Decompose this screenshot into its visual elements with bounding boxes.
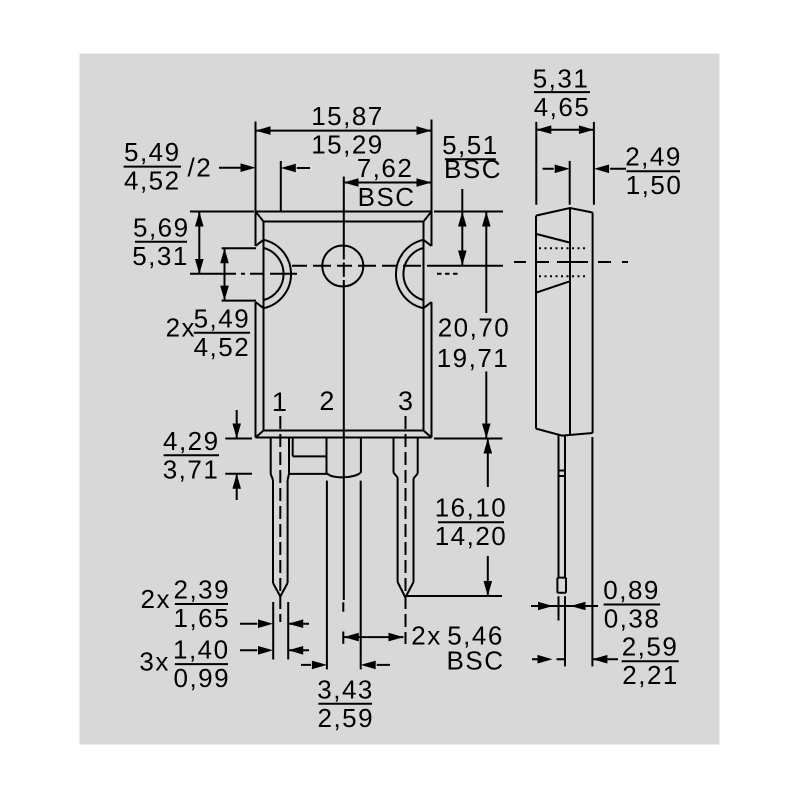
side view hidden dotted line lower xyxy=(539,275,588,277)
arrow 16,10 down xyxy=(484,581,493,596)
side view chamfer edge line xyxy=(569,208,571,435)
side view upper diagonal xyxy=(536,234,569,242)
bar 1,40/0,99 xyxy=(175,663,228,665)
bar 2x5,49/4,52 xyxy=(194,332,250,334)
svg-text:/2: /2 xyxy=(188,153,213,183)
side view pin left edge xyxy=(558,435,560,621)
dim leader 5,51 xyxy=(461,189,463,266)
extension line side 5,31 left xyxy=(535,122,537,205)
side view body outline xyxy=(536,208,593,436)
arrow 2x5,46 left xyxy=(344,633,359,642)
left notch centerline xyxy=(190,273,297,275)
arrow 0,89 left xyxy=(538,602,553,611)
dim line 2,59 xyxy=(532,658,618,660)
arrow 7,62 right xyxy=(417,178,432,187)
pin 3 tip xyxy=(398,582,414,598)
svg-text:BSC: BSC xyxy=(444,154,502,184)
arrow 7,62 left xyxy=(344,178,359,187)
side view hidden dotted line upper xyxy=(539,247,588,249)
arrow 4,29 down to body bottom xyxy=(232,424,241,439)
bar 5,51 BSC xyxy=(445,158,496,160)
svg-text:3x: 3x xyxy=(139,647,169,677)
bar 2,39/1,65 xyxy=(175,603,228,605)
arrow 2,59 left xyxy=(538,655,553,664)
dim line 15,87 xyxy=(256,130,432,132)
svg-text:5,31: 5,31 xyxy=(533,63,590,93)
dim tail 5,49/2 right arrow xyxy=(297,167,310,169)
pin 3 dashed centerline xyxy=(405,416,407,644)
arrow 2,49 right xyxy=(594,165,609,174)
arrow 2,49 left xyxy=(555,165,570,174)
svg-text:5,69: 5,69 xyxy=(133,212,190,242)
svg-text:15,87: 15,87 xyxy=(311,101,384,131)
arrow 2x5,49 up xyxy=(220,248,229,263)
svg-text:3,43: 3,43 xyxy=(317,674,374,704)
svg-text:BSC: BSC xyxy=(358,182,416,212)
pin 2 wide right edge xyxy=(360,439,362,474)
fraction bars xyxy=(124,92,680,704)
bar 2,49/1,50 xyxy=(627,170,681,172)
svg-text:20,70: 20,70 xyxy=(438,313,511,343)
svg-text:16,10: 16,10 xyxy=(435,493,508,523)
svg-text:2: 2 xyxy=(319,386,334,416)
dim leader 5,49/2 xyxy=(219,167,241,169)
extension line pin1 narrow right xyxy=(287,602,289,660)
arrow 2,59 right xyxy=(592,655,607,664)
svg-text:5,49: 5,49 xyxy=(124,137,181,167)
bar 5,49/4,52 /2 xyxy=(124,166,181,168)
main centerline lower dashes xyxy=(342,602,344,644)
right notch outer arc xyxy=(396,240,424,308)
arrow 2x2,39 left xyxy=(258,619,273,628)
bar 0,89/0,38 xyxy=(604,604,661,606)
arrow 0,89 right xyxy=(571,602,586,611)
arrow 5,51 up xyxy=(458,212,467,227)
extension line pin2 wide left xyxy=(326,481,328,670)
extension line pin1 center up xyxy=(280,161,282,212)
svg-text:2x: 2x xyxy=(141,584,171,614)
svg-text:4,29: 4,29 xyxy=(163,426,220,456)
pin number labels xyxy=(272,386,413,417)
dim line 3,43 xyxy=(301,664,390,666)
arrow 5,49/2 at edge xyxy=(241,163,256,172)
svg-text:19,71: 19,71 xyxy=(437,343,510,373)
extension line pin2 wide right xyxy=(360,481,362,670)
svg-text:3: 3 xyxy=(398,386,413,416)
arrow 4,29 up to shoulder xyxy=(232,474,241,489)
dim line 2x5,46 xyxy=(344,636,404,638)
svg-text:BSC: BSC xyxy=(447,646,505,676)
extension line body right edge up xyxy=(431,120,433,212)
pin 1 dashed centerline xyxy=(279,416,281,622)
arrow 16,10 up xyxy=(484,439,493,454)
pin 1 tip xyxy=(273,583,288,597)
arrow 20,70 up xyxy=(482,212,491,227)
arrow 2x5,49 down xyxy=(220,286,229,301)
dim line 0,89 xyxy=(531,605,598,607)
arrow 5,69 up xyxy=(195,212,204,227)
arrow 2x2,39 right xyxy=(288,619,303,628)
dimension texts xyxy=(124,63,682,733)
extension line side right face down xyxy=(591,437,593,666)
dim line 5,31 xyxy=(536,129,594,131)
pin 1 narrow section xyxy=(273,480,288,583)
side view pin tip box xyxy=(557,578,566,593)
arrow 2x5,46 right xyxy=(389,633,404,642)
extension line notch top xyxy=(222,247,256,249)
svg-text:14,20: 14,20 xyxy=(435,521,508,551)
bar 16,10/14,20 xyxy=(438,521,504,523)
pin 2 wide bottom curve xyxy=(289,473,361,477)
svg-text:5,31: 5,31 xyxy=(132,241,189,271)
svg-text:1,65: 1,65 xyxy=(173,603,230,633)
side view pin ticks xyxy=(558,471,567,477)
extension line top edge right xyxy=(434,211,503,213)
svg-text:3,71: 3,71 xyxy=(163,454,220,484)
svg-text:2,21: 2,21 xyxy=(622,660,679,690)
svg-text:2x: 2x xyxy=(411,620,441,650)
dim line 16,10 xyxy=(487,439,489,597)
svg-text:2,59: 2,59 xyxy=(622,632,679,662)
hole horizontal centerline xyxy=(292,265,430,267)
bar 4,29/3,71 xyxy=(164,454,219,456)
front view body chamfer inner outline xyxy=(264,222,424,431)
dim line 2,49 xyxy=(543,168,627,170)
extension line side chamfer ridge xyxy=(569,161,571,205)
svg-text:0,99: 0,99 xyxy=(173,663,230,693)
bar 5,69/5,31 xyxy=(135,241,187,243)
arrow 3,43 right xyxy=(361,661,376,670)
mounting hole xyxy=(322,246,363,287)
svg-text:0,89: 0,89 xyxy=(603,575,660,605)
svg-text:1,40: 1,40 xyxy=(173,635,230,665)
bar 3,43/2,59 xyxy=(318,703,372,705)
svg-text:0,38: 0,38 xyxy=(604,604,661,634)
extension line body bottom right xyxy=(434,438,502,440)
svg-text:4,65: 4,65 xyxy=(534,92,591,122)
arrow 5,31 right xyxy=(579,125,594,134)
dim line 3x1,40 xyxy=(240,649,309,651)
body corner bevel diagonals xyxy=(256,212,432,438)
pin 3 wide section xyxy=(394,439,418,479)
svg-text:2,49: 2,49 xyxy=(625,142,682,172)
side view lower diagonal xyxy=(537,282,569,293)
left notch outer arc xyxy=(264,240,292,308)
extension line notch bottom xyxy=(222,300,256,302)
svg-text:1,50: 1,50 xyxy=(626,170,683,200)
dim line 2x5,49 xyxy=(224,248,226,300)
arrow 15,87 right xyxy=(417,126,432,135)
svg-text:4,52: 4,52 xyxy=(124,166,181,196)
left notch inner arc xyxy=(264,248,284,300)
arrow 5,51 down xyxy=(458,251,467,266)
step below body xyxy=(293,439,327,474)
arrow 5,69 down xyxy=(195,259,204,274)
extension line lead shoulder left xyxy=(225,473,252,475)
svg-text:5,49: 5,49 xyxy=(194,303,251,333)
arrowheads xyxy=(195,125,609,669)
arrow 20,70 down xyxy=(482,424,491,439)
extension line top edge left xyxy=(190,211,254,213)
right notch bevel diagonals xyxy=(424,240,432,308)
dim line 4,29 xyxy=(236,410,238,500)
hole centerline right solid extension xyxy=(430,265,503,267)
pin 3 narrow section xyxy=(398,478,414,583)
extension line body bottom left xyxy=(225,438,252,440)
left notch bevel diagonals xyxy=(256,240,264,308)
front view body outer outline xyxy=(256,212,432,438)
bar 5,31/4,65 xyxy=(534,91,590,93)
arrow 3,43 left xyxy=(312,661,327,670)
svg-text:2x: 2x xyxy=(166,312,196,342)
svg-text:4,52: 4,52 xyxy=(194,332,251,362)
extension line pin1 narrow left xyxy=(272,602,274,660)
dim line 20,70 xyxy=(485,212,487,439)
right notch centerline xyxy=(437,273,461,275)
svg-text:2,59: 2,59 xyxy=(317,703,374,733)
svg-text:1: 1 xyxy=(272,387,287,417)
svg-text:2,39: 2,39 xyxy=(173,575,230,605)
side view centerline xyxy=(514,261,628,263)
arrow 3x1,40 left xyxy=(258,646,273,655)
extension line side 5,31 right xyxy=(593,122,595,205)
svg-text:7,62: 7,62 xyxy=(357,153,414,183)
arrow 3x1,40 right xyxy=(288,646,303,655)
right notch inner arc xyxy=(403,248,423,300)
dim line 7,62 xyxy=(344,182,432,184)
bar 2,59/2,21 xyxy=(622,660,679,662)
main vertical centerline xyxy=(343,177,345,601)
arrow 5,31 left xyxy=(536,125,551,134)
extension line lead tip right xyxy=(407,595,503,597)
dim line 5,69 xyxy=(198,212,200,275)
arrow 15,87 left xyxy=(256,126,271,135)
arrow 5,49/2 at pin1 xyxy=(281,164,296,173)
side view pin right edge xyxy=(564,435,566,667)
extension line body left edge up xyxy=(255,122,257,212)
pin 1 wide section xyxy=(271,439,289,481)
dim line 2x2,39 xyxy=(240,623,309,625)
